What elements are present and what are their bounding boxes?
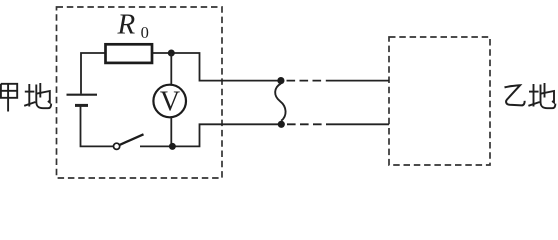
wire: bottom solid line to right box <box>326 123 389 125</box>
wire: top dashed continuation <box>287 80 323 82</box>
label 甲 (place A, clipped at left edge) <box>1 84 17 112</box>
junction dot (top of voltmeter branch) <box>168 50 175 57</box>
battery cell (long plate) <box>67 94 98 96</box>
junction dot (bottom of voltmeter branch) <box>169 143 176 150</box>
battery cell (short plate) <box>75 104 88 107</box>
resistor R0 <box>106 44 153 63</box>
junction dot (bottom line, terminal) <box>278 121 285 128</box>
wire: battery bottom lead down and right to switch <box>81 105 114 146</box>
wire: bottom dashed continuation <box>287 123 323 125</box>
switch S lever <box>120 134 144 145</box>
voltmeter V <box>153 85 186 118</box>
wire: switch to bottom junction, corner up, exit to right junction <box>140 124 281 146</box>
label 乙 (place B) <box>505 85 525 105</box>
wire: top solid line to right box <box>326 80 389 82</box>
label 地 (place A) <box>24 83 51 108</box>
wire: junction down to voltmeter <box>170 53 172 85</box>
svg-text:R: R <box>117 9 136 41</box>
svg-text:V: V <box>160 87 180 118</box>
wire: resistor to right corner, down, exit to junction <box>153 53 282 81</box>
junction dot (top line, terminal) <box>277 77 284 84</box>
label 地 (place B) <box>528 83 555 108</box>
wire: battery top lead up and right to resistor <box>81 53 105 94</box>
wire: voltmeter down to bottom junction <box>170 117 172 146</box>
twisted-pair squiggle between terminals <box>275 84 285 121</box>
svg-text:0: 0 <box>141 23 149 42</box>
dashed enclosure box (station 乙) <box>389 37 490 165</box>
switch S (open) pivot <box>114 143 120 149</box>
dashed enclosure box (station 甲) <box>57 7 223 178</box>
